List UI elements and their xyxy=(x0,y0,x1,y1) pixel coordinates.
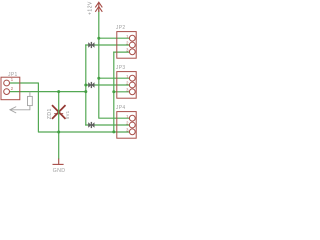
svg-text:JP2: JP2 xyxy=(116,25,126,31)
svg-text:+12V: +12V xyxy=(88,1,94,15)
svg-text:GND: GND xyxy=(53,168,66,174)
svg-text:5V1: 5V1 xyxy=(65,110,70,119)
svg-text:JP4: JP4 xyxy=(116,105,126,111)
svg-text:2: 2 xyxy=(11,86,14,91)
svg-text:1: 1 xyxy=(11,77,14,82)
svg-text:JP3: JP3 xyxy=(116,65,126,71)
svg-text:ZD1: ZD1 xyxy=(47,108,53,119)
